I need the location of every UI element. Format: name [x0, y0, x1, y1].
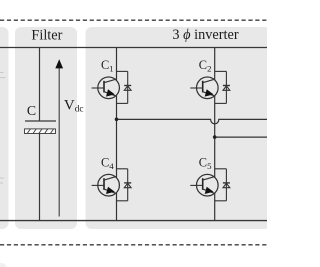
svg-text:Filter: Filter [31, 28, 62, 44]
svg-text:3 ϕ inverter: 3 ϕ inverter [172, 27, 238, 43]
svg-text:C: C [27, 103, 36, 118]
